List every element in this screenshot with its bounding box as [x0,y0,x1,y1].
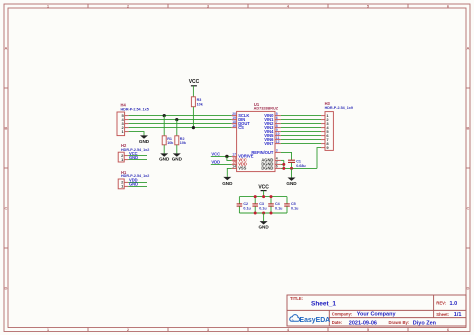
junction node DGND bus [282,167,285,170]
svg-text:VDD: VDD [211,160,220,165]
svg-text:GND: GND [139,139,150,144]
svg-text:16: 16 [232,124,236,128]
junction node GND rail / C4 [270,212,273,215]
svg-text:GND: GND [172,157,183,162]
svg-text:>: > [292,319,294,323]
svg-text:EasyEDA: EasyEDA [300,317,331,324]
svg-text:C3: C3 [259,202,264,206]
IC U1 AD7328BRUZ [232,102,281,172]
wire U1 VSS to ground [227,168,231,177]
junction node GND rail / GND tap [262,212,265,215]
ground (R1) [159,153,170,161]
svg-text:10k: 10k [167,141,174,145]
wire U1 VIN1 to H3 pin2 [281,119,321,121]
svg-text:Sheet_1: Sheet_1 [311,301,336,308]
wire R2 to ground [176,145,178,154]
svg-text:A: A [467,46,470,51]
wire VDD to U1 VDD pin [211,163,232,165]
wire U1 REFIN/OUT to C1 [281,152,292,160]
header H1 [118,170,149,189]
wire H4 pin1 to ground [129,132,144,136]
power flag VCC (R3 pull-up) [189,79,200,97]
ground (decoupling bank) [258,221,269,230]
svg-text:B: B [467,126,470,131]
header H3 [321,101,353,150]
ground (H4 pin1) [139,135,150,144]
wire U1 VIN5 to H3 pin6 [281,135,321,137]
wire H4 pin4 to U1 DIN [129,119,232,121]
svg-text:Sheet:: Sheet: [436,312,449,317]
capacitor C4 [268,197,283,213]
U1 left pin stubs [232,116,237,169]
wire GND rail (bottom) [239,212,287,214]
U1 pin names [238,113,254,171]
svg-text:REV:: REV: [436,301,446,306]
svg-text:Date:: Date: [332,320,342,325]
svg-text:A: A [5,46,8,51]
svg-text:GND: GND [129,182,138,187]
svg-text:14: 14 [232,165,236,169]
resistor R2 [175,136,187,145]
svg-text:REFIN/OUT: REFIN/OUT [251,150,274,155]
svg-text:C5: C5 [291,202,296,206]
ground (C1 / bus) [286,168,297,185]
svg-text:2021-09-06: 2021-09-06 [349,320,377,326]
wire U1 VIN0 to H3 pin1 [281,115,321,117]
svg-text:VCC: VCC [189,79,200,85]
ground (R2) [172,153,183,161]
wire C1 to ground bus [291,163,293,169]
wire R3 to CS [192,107,194,128]
wire U1 VIN3 to H3 pin4 [281,127,321,129]
svg-text:HDR-P-2.54_1x9: HDR-P-2.54_1x9 [325,106,353,110]
junction node VCC rail / C3 [254,195,257,198]
wire R1 to ground [163,145,165,154]
wire R1 to SCLK [163,116,165,136]
junction node DIN/R2 [175,118,178,121]
wire H4 pin5 to U1 SCLK [129,115,232,117]
wire R2 to DIN [176,120,178,136]
svg-text:3: 3 [276,149,278,153]
wire H3 pin9 to ground bus [317,148,321,169]
wire GND rail to ground [263,213,265,221]
wire H1 pin2 (net VDD) [128,181,147,183]
svg-text:GND: GND [129,155,138,160]
svg-text:10k: 10k [180,141,187,145]
svg-text:VSS: VSS [238,166,246,171]
svg-text:GND: GND [222,181,233,186]
wire AGND/DGND bus [281,160,317,168]
svg-text:Diyo Zen: Diyo Zen [413,320,437,326]
wire U1 VIN6 to H3 pin7 [281,139,321,141]
ground (U1 VSS) [222,177,233,186]
svg-text:12: 12 [276,140,280,144]
svg-text:VCC: VCC [258,185,269,191]
wire H1 pin1 (net GND) [128,185,147,187]
junction node VCC/VDRIVE [225,155,228,158]
svg-text:GND: GND [286,181,297,186]
header H2 [118,143,149,162]
svg-text:D: D [5,286,8,291]
junction node CS/R3 [192,126,195,129]
wire H4 pin2 to U1 CS [129,127,232,129]
svg-text:VCC: VCC [211,152,220,157]
capacitor C3 [252,197,267,213]
junction node C1/ground bus [290,167,293,170]
svg-text:C: C [5,206,8,211]
svg-text:Company:: Company: [332,312,352,317]
svg-text:1/1: 1/1 [454,312,462,318]
junction node GND rail / C3 [254,212,257,215]
svg-text:R3: R3 [197,98,202,102]
svg-text:C1: C1 [296,160,301,164]
U1 pin numbers [232,112,236,169]
svg-text:10k: 10k [197,102,204,106]
svg-text:C: C [467,206,470,211]
svg-text:1.0: 1.0 [450,301,458,307]
svg-text:0.1u: 0.1u [259,207,267,211]
svg-text:HDR-P-2.54_1x5: HDR-P-2.54_1x5 [121,108,149,112]
junction node VCC rail / VCC flag [262,195,265,198]
capacitor C2 [237,197,252,213]
svg-text:Drawn By:: Drawn By: [389,320,410,325]
U1 right pin stubs [275,116,281,169]
resistor R1 [162,136,174,145]
svg-text:0.1u: 0.1u [291,207,299,211]
wire H2 pin1 (net GND) [128,159,147,161]
wire VCC to VDRIVE [211,155,232,157]
svg-text:VIN7: VIN7 [264,141,274,146]
junction node VCC rail / C4 [270,195,273,198]
svg-text:B: B [5,126,8,131]
wire VCC branch to U1 VCC pin [227,156,232,160]
svg-text:DGND: DGND [261,166,273,171]
resistor R3 [191,97,203,107]
power flag VCC (decoupling bank) [258,185,269,197]
svg-text:Your Company: Your Company [357,312,397,318]
svg-text:0.1u: 0.1u [243,207,251,211]
wire H2 pin2 (net VCC) [128,155,147,157]
wire U1 VIN7 to H3 pin8 [281,143,321,145]
wire U1 VIN4 to H3 pin5 [281,131,321,133]
wire U1 VIN2 to H3 pin3 [281,123,321,125]
svg-text:0.68u: 0.68u [296,164,306,168]
svg-text:6: 6 [276,165,278,169]
svg-text:C2: C2 [243,202,248,206]
junction node SCLK/R1 [163,114,166,117]
svg-text:GND: GND [258,225,269,230]
header H4 [117,103,149,136]
svg-text:0.1u: 0.1u [275,207,283,211]
wire H4 pin3 to U1 DOUT [129,123,232,125]
svg-text:D: D [467,286,470,291]
capacitor C5 [284,197,299,213]
junction node AGND/DGND [282,163,285,166]
capacitor C1 [288,160,306,168]
svg-text:TITLE:: TITLE: [290,296,303,301]
wire VCC rail (top) [239,196,287,198]
svg-text:GND: GND [159,157,170,162]
svg-text:AD7328BRUZ: AD7328BRUZ [254,106,279,110]
